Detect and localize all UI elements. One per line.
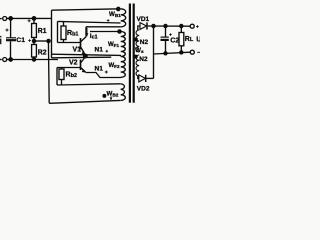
node rectifier join	[152, 24, 155, 27]
wire WB2 bottom rail	[49, 100, 120, 103]
capacitor C1	[6, 17, 17, 62]
node WF1 dot	[118, 30, 121, 33]
svg-text:N2: N2	[140, 39, 149, 46]
transformer core	[129, 4, 131, 103]
transistor V2	[81, 57, 86, 72]
svg-text:VD1: VD1	[137, 16, 150, 23]
wire inner riser bottom cell	[56, 68, 58, 86]
node mark near R2 top	[28, 39, 31, 42]
svg-text:RL: RL	[185, 36, 194, 43]
wire midpoint rail lower	[52, 56, 112, 59]
wire V1 base	[58, 42, 81, 44]
node mark near R1 top	[28, 19, 31, 22]
svg-text:N1: N1	[95, 66, 104, 73]
winding N2 upper	[136, 30, 139, 52]
transistor V1	[81, 27, 87, 55]
resistor R2	[32, 41, 37, 61]
node input - terminal	[0, 59, 2, 61]
resistor Rb1	[61, 22, 66, 43]
svg-text:ic1: ic1	[90, 33, 98, 41]
svg-text:V1: V1	[73, 47, 82, 54]
wire V1 collector to WB1	[86, 26, 121, 28]
winding WB1	[121, 9, 126, 27]
wire secondary bottom to VD2	[138, 76, 139, 78]
wire V2 emitter to WF2 bottom	[86, 73, 121, 78]
svg-text:C2: C2	[170, 37, 179, 44]
svg-text:WB2: WB2	[107, 91, 119, 99]
svg-text:V2: V2	[69, 60, 78, 67]
wire VD1 to plus rail	[147, 25, 190, 27]
label Ui fragment	[0, 39, 1, 45]
node output + terminal	[190, 24, 194, 28]
svg-text:Uo: Uo	[196, 36, 200, 43]
resistor Rb2	[59, 68, 64, 85]
diode VD1	[140, 23, 147, 30]
wire secondary top to VD1	[138, 26, 140, 30]
winding WF1	[121, 32, 126, 57]
node N2 upper polarity dot	[135, 38, 138, 41]
wire divider midpoint	[34, 40, 49, 42]
node WB2 polarity dot	[103, 95, 106, 98]
wire ib2 current arrow	[110, 96, 112, 98]
wire ic1 current arrow	[86, 28, 88, 35]
resistor R1	[32, 17, 37, 41]
wire inner riser top cell	[57, 21, 59, 42]
wire VD2 to vertical	[146, 77, 154, 79]
winding N2 lower	[136, 55, 139, 76]
node plus mark bottom cell	[105, 71, 108, 74]
svg-text:WB1: WB1	[109, 11, 121, 18]
wire left riser	[51, 10, 53, 58]
capacitor C2	[161, 24, 172, 54]
svg-text:Rb1: Rb1	[67, 30, 78, 38]
wire WF1 top	[90, 31, 120, 33]
wire input top rail	[6, 17, 52, 19]
wire WB2 top rail	[57, 84, 121, 85]
node WB1 polarity dot	[117, 7, 120, 10]
svg-text:N2: N2	[139, 56, 148, 63]
svg-text:Ws: Ws	[135, 47, 144, 55]
resistor RL	[179, 24, 184, 54]
node N2 lower polarity dot	[135, 55, 138, 58]
wire WB1 top feed	[52, 9, 121, 10]
wire input bottom rail	[6, 59, 58, 61]
wire divider to bottom rail	[47, 41, 50, 103]
node plus mark WB1	[107, 19, 110, 22]
wire output bottom rail	[154, 52, 191, 54]
svg-text:N1: N1	[95, 47, 104, 54]
svg-text:WF1: WF1	[108, 42, 119, 48]
svg-text:R1: R1	[38, 28, 47, 35]
wire WB1 bottom line	[58, 21, 121, 23]
svg-text:Rb2: Rb2	[66, 72, 77, 80]
winding WF2	[121, 57, 126, 78]
winding WB2	[121, 84, 126, 101]
wire V2 base	[57, 67, 81, 69]
node plus mark top cell	[106, 50, 109, 53]
diode VD2	[139, 75, 146, 82]
svg-text:C1: C1	[16, 37, 25, 44]
node midpoint junction	[84, 54, 88, 58]
wire rectifier vertical	[153, 26, 155, 78]
node input + terminal	[0, 18, 2, 20]
svg-text:WF2: WF2	[109, 63, 120, 69]
wire midpoint rail upper	[52, 54, 121, 55]
svg-text:R2: R2	[38, 49, 47, 56]
node output - terminal	[190, 50, 194, 54]
svg-text:VD2: VD2	[137, 85, 150, 92]
